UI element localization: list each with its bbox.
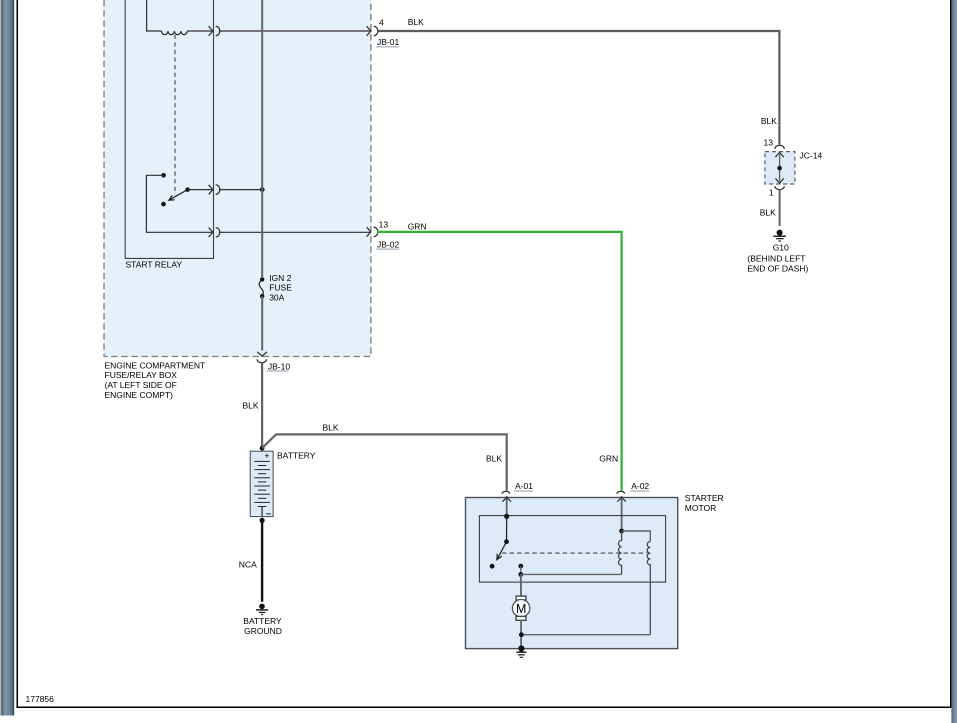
wire JC-14 to G10	[779, 190, 781, 226]
hold-in coil	[647, 542, 650, 635]
starter case ground node	[518, 645, 524, 651]
A-01 internal arrow	[502, 497, 511, 501]
svg-text:BLK: BLK	[760, 208, 776, 218]
fuse bottom node	[260, 294, 264, 298]
wire relay pin2 to fuse line	[219, 189, 262, 191]
JB-02 exit arrow	[367, 227, 371, 237]
svg-text:FUSE/RELAY BOX: FUSE/RELAY BOX	[105, 370, 178, 380]
svg-text:JB-02: JB-02	[377, 239, 399, 249]
A-02 entry arc	[617, 491, 625, 494]
svg-text:BLK: BLK	[761, 116, 777, 126]
wire coil top to hold coil	[622, 531, 651, 542]
svg-text:START RELAY: START RELAY	[126, 260, 183, 270]
battery plates	[254, 461, 270, 506]
motor bottom brush	[516, 616, 526, 620]
battery internal top stub	[261, 451, 263, 461]
wire relay contact to pin JB-02	[146, 175, 212, 232]
svg-text:1: 1	[769, 188, 774, 198]
JB-10 exit arrow	[257, 352, 267, 356]
JC-14 internal wire	[779, 154, 781, 182]
wire contact to coil bottom	[521, 573, 622, 575]
relay pin 2 socket arc	[216, 185, 220, 194]
relay blade arrowhead	[169, 195, 175, 200]
JB-10 socket arc	[257, 359, 266, 363]
start relay box	[125, 0, 213, 258]
JB-01 exit arrow	[367, 26, 371, 36]
solenoid linkage dashed	[502, 552, 648, 554]
relay pin 3 socket arc	[216, 228, 220, 237]
engine compartment box label	[105, 360, 206, 400]
A-02 internal arrow	[617, 497, 626, 501]
relay linkage dashed line	[174, 35, 176, 191]
IGN2 fuse feed wire	[261, 0, 263, 277]
page frame bottom border	[16, 707, 951, 709]
relay NC contact node	[161, 173, 166, 178]
page frame left border	[17, 0, 19, 708]
JB-01 underline	[376, 46, 399, 48]
solenoid switch blade	[497, 542, 507, 560]
engine compartment fuse/relay box (dashed) fill	[104, 0, 371, 357]
JB-01 socket arc	[374, 26, 378, 35]
A-02 internal wire	[621, 496, 623, 531]
contact link wire	[520, 566, 522, 574]
wire relay pin1 to JB-01	[219, 30, 371, 32]
A-01 internal wire	[506, 496, 508, 516]
svg-text:13: 13	[764, 137, 774, 147]
wire motor to ground	[520, 620, 522, 648]
A-01 underline	[514, 490, 533, 492]
starter ground symbol	[516, 652, 526, 657]
relay idle contact node	[161, 202, 166, 207]
A-01 entry arc	[502, 491, 510, 493]
battery box	[250, 451, 273, 516]
page frame right border	[950, 0, 951, 708]
BLK wire JB-01 to JC-14	[377, 31, 779, 145]
JB-10 underline	[267, 370, 289, 372]
G10 ground symbol	[773, 236, 786, 241]
battery bottom stub	[261, 507, 263, 517]
solenoid blade arrowhead	[497, 554, 502, 560]
battery ground symbol	[256, 610, 268, 615]
svg-text:NCA: NCA	[239, 560, 257, 570]
svg-text:(AT LEFT SIDE OF: (AT LEFT SIDE OF	[105, 380, 177, 390]
svg-text:A-01: A-01	[515, 481, 533, 491]
pull-in coil	[618, 531, 621, 574]
svg-text:END OF DASH): END OF DASH)	[747, 263, 808, 273]
JC-14 node	[777, 166, 782, 171]
engine compartment fuse/relay box dashed border	[104, 0, 371, 357]
svg-text:177856: 177856	[26, 694, 55, 704]
wire battery branch chamfer	[262, 434, 507, 490]
svg-text:13: 13	[379, 220, 389, 230]
starter inner box	[479, 516, 665, 583]
fuse top node	[260, 277, 264, 281]
motor top brush	[516, 596, 526, 600]
svg-text:JC-14: JC-14	[800, 151, 823, 161]
right steel scrollbar	[951, 0, 957, 723]
relay switch blade	[169, 190, 188, 201]
JC-14 down arrow	[775, 178, 783, 183]
JC-14 exit arc	[775, 186, 784, 190]
relay coil L1	[162, 31, 188, 35]
JB-02 underline	[376, 248, 399, 250]
wire relay pin3 to JB-02	[219, 231, 371, 233]
wire fuse to JB-10	[261, 296, 263, 350]
wire JB-10 to battery	[261, 363, 263, 451]
solenoid fixed contact node	[518, 564, 523, 569]
battery ground node	[259, 604, 265, 610]
JC-14 up arrow	[775, 152, 783, 157]
G10 ground node	[777, 230, 783, 236]
relay pin 2 arrow	[209, 185, 213, 195]
svg-text:+: +	[264, 451, 269, 461]
battery junction node	[260, 446, 265, 451]
svg-text:GRN: GRN	[599, 453, 618, 463]
wire junction to motor	[520, 574, 522, 596]
battery minus sign	[266, 513, 271, 515]
svg-text:M: M	[516, 602, 526, 616]
motor return node	[519, 632, 524, 637]
JC-14 entry arc	[775, 145, 784, 149]
svg-text:BLK: BLK	[243, 400, 259, 410]
svg-text:ENGINE COMPARTMENT: ENGINE COMPARTMENT	[105, 360, 206, 370]
A-02 underline	[630, 490, 649, 492]
starter motor box	[466, 498, 678, 649]
starter motor label	[685, 493, 724, 513]
JC-14 joint connector box	[765, 152, 795, 184]
svg-text:JB-01: JB-01	[377, 37, 399, 47]
solenoid blade contact node	[490, 564, 495, 569]
motor M1	[512, 600, 529, 617]
IGN2 fuse element	[259, 279, 263, 296]
relay coil lead wire	[147, 0, 162, 31]
relay common node	[185, 187, 190, 192]
svg-text:(BEHIND LEFT: (BEHIND LEFT	[747, 253, 805, 263]
JB-02 socket arc	[374, 227, 378, 236]
junction node on fuse line	[260, 187, 265, 192]
svg-text:G10: G10	[773, 242, 789, 252]
svg-text:GROUND: GROUND	[244, 626, 282, 636]
motor junction node	[518, 572, 523, 577]
svg-text:4: 4	[379, 17, 384, 27]
wire coil to relay pin	[187, 30, 212, 32]
svg-text:ENGINE COMPT): ENGINE COMPT)	[105, 390, 174, 400]
svg-text:30A: 30A	[269, 293, 284, 303]
svg-text:IGN 2: IGN 2	[269, 273, 291, 283]
svg-text:A-02: A-02	[631, 481, 649, 491]
solenoid coil top node	[619, 529, 624, 534]
G10 label	[747, 242, 808, 273]
battery negative wire NCA	[261, 520, 263, 601]
svg-text:GRN: GRN	[408, 221, 427, 231]
solenoid switch lead	[506, 516, 508, 541]
svg-text:JB-10: JB-10	[268, 361, 290, 371]
svg-text:BLK: BLK	[408, 17, 424, 27]
battery negative node	[260, 518, 265, 523]
svg-text:BLK: BLK	[323, 423, 339, 433]
svg-text:STARTER: STARTER	[685, 493, 724, 503]
svg-text:MOTOR: MOTOR	[685, 503, 716, 513]
relay pin 3 arrow	[209, 228, 213, 238]
svg-text:BATTERY: BATTERY	[243, 616, 282, 626]
relay pin 1 socket arc	[216, 26, 220, 35]
GRN wire JB-02 to starter	[377, 232, 622, 491]
IGN2 fuse label	[269, 273, 292, 303]
relay pin 1 arrow	[209, 26, 213, 36]
solenoid switch pivot node	[504, 539, 509, 544]
battery ground label	[243, 616, 282, 636]
bottom return wire	[521, 634, 650, 636]
svg-text:BLK: BLK	[486, 453, 502, 463]
solenoid switch top node	[504, 514, 509, 519]
svg-text:BATTERY: BATTERY	[277, 451, 316, 461]
svg-text:FUSE: FUSE	[269, 283, 292, 293]
wire relay common to pin	[188, 189, 213, 191]
left steel scrollbar	[0, 0, 14, 716]
